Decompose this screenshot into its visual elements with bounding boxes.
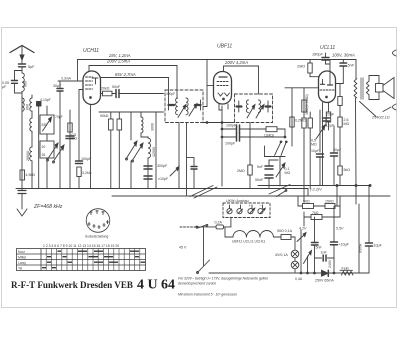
svg-text:R-F-T Funkwerk Dresden VEB: R-F-T Funkwerk Dresden VEB xyxy=(11,280,133,290)
svg-text:100pF: 100pF xyxy=(226,124,237,128)
svg-text:3,2kΩ: 3,2kΩ xyxy=(82,171,92,175)
svg-text:10μF: 10μF xyxy=(311,149,320,153)
svg-text:4,5kΩ: 4,5kΩ xyxy=(26,173,36,177)
svg-text:0,1μF: 0,1μF xyxy=(325,124,335,128)
svg-text:0,2A: 0,2A xyxy=(215,220,223,224)
svg-text:UBF11: UBF11 xyxy=(217,44,232,50)
svg-text:Sockelschaltung: Sockelschaltung xyxy=(85,235,108,239)
svg-text:5nF: 5nF xyxy=(257,165,264,169)
svg-text:UCH11: UCH11 xyxy=(83,48,99,54)
svg-text:5nF: 5nF xyxy=(316,246,323,250)
svg-text:50Ω 0,1A: 50Ω 0,1A xyxy=(277,229,293,233)
svg-text:MΩ: MΩ xyxy=(311,143,317,147)
svg-text:4 U 64: 4 U 64 xyxy=(137,278,175,293)
svg-text:4,2V: 4,2V xyxy=(299,227,307,231)
svg-text:300pF: 300pF xyxy=(166,92,175,96)
svg-text:3,3mA: 3,3mA xyxy=(61,77,72,81)
svg-text:5nF: 5nF xyxy=(348,64,355,68)
svg-text:45 V: 45 V xyxy=(179,246,187,250)
svg-text:2540/2,1Ω: 2540/2,1Ω xyxy=(371,116,390,120)
svg-text:5μF: 5μF xyxy=(28,65,35,69)
svg-text:200V 2,5mA: 200V 2,5mA xyxy=(106,59,130,64)
svg-text:1MΩ(1,1MΩ): 1MΩ(1,1MΩ) xyxy=(305,94,309,115)
svg-text:Für 320V~ beträgt U≈ 173V, daz: Für 320V~ beträgt U≈ 173V, dazugehörige … xyxy=(178,277,268,281)
svg-text:+10μF: +10μF xyxy=(339,243,350,247)
svg-text:7kΩ: 7kΩ xyxy=(312,211,319,215)
svg-text:dementsprechend zurück: dementsprechend zurück xyxy=(178,282,216,286)
svg-text:240V: 240V xyxy=(328,259,332,268)
svg-text:50nF: 50nF xyxy=(112,85,121,89)
svg-text:Feld: Feld xyxy=(342,266,349,270)
svg-text:20μF: 20μF xyxy=(333,148,342,152)
svg-text:30μF: 30μF xyxy=(53,84,62,88)
svg-text:20kΩ: 20kΩ xyxy=(101,87,110,91)
svg-text:4-13pF: 4-13pF xyxy=(40,98,51,102)
svg-text:4V/0,1A: 4V/0,1A xyxy=(275,253,288,257)
svg-text:85V 2,7mA: 85V 2,7mA xyxy=(115,72,136,77)
svg-text:MΩ: MΩ xyxy=(344,122,350,126)
svg-text:50Ω: 50Ω xyxy=(303,200,310,204)
svg-text:(-2,2)V: (-2,2)V xyxy=(310,188,322,192)
svg-text:ZF=468 kHz: ZF=468 kHz xyxy=(33,204,63,210)
svg-text:5kΩ: 5kΩ xyxy=(344,168,351,172)
svg-text:UKW=Ausbau: UKW=Ausbau xyxy=(226,199,249,203)
svg-text:1 2 3 4 5 6 7 8 9 10 11 12 13: 1 2 3 4 5 6 7 8 9 10 11 12 13 14 15 16 1… xyxy=(43,244,119,248)
svg-text:150Ω: 150Ω xyxy=(325,200,334,204)
svg-text:180pF: 180pF xyxy=(312,53,323,57)
svg-text:Kurz: Kurz xyxy=(18,250,25,254)
svg-text:65mA: 65mA xyxy=(359,243,363,253)
svg-text:0,4A: 0,4A xyxy=(295,277,303,281)
svg-text:70pF: 70pF xyxy=(55,115,63,119)
svg-text:5,5V: 5,5V xyxy=(336,227,344,231)
svg-text:Mittel: Mittel xyxy=(18,256,26,260)
svg-text:200V 4,2mA: 200V 4,2mA xyxy=(224,60,248,65)
svg-text:2MΩ: 2MΩ xyxy=(296,65,305,69)
svg-text:2MΩ: 2MΩ xyxy=(237,169,245,173)
svg-text:660: 660 xyxy=(26,104,30,110)
svg-text:0,2MΩ: 0,2MΩ xyxy=(295,119,306,123)
svg-text:250V 65mA: 250V 65mA xyxy=(315,279,334,283)
svg-text:300pF: 300pF xyxy=(157,164,168,168)
svg-text:100μF: 100μF xyxy=(81,157,92,161)
svg-text:UCL11: UCL11 xyxy=(320,45,335,51)
svg-text:50kΩ: 50kΩ xyxy=(100,114,109,118)
svg-text:MΩ: MΩ xyxy=(285,171,291,175)
svg-text:28V, 1,2mA: 28V, 1,2mA xyxy=(108,53,131,58)
svg-text:26600: 26600 xyxy=(26,151,30,161)
svg-text:660: 660 xyxy=(24,81,28,87)
svg-text:20: 20 xyxy=(42,145,46,149)
svg-text:50nF: 50nF xyxy=(255,178,264,182)
svg-text:100V, 36mA: 100V, 36mA xyxy=(332,53,355,58)
svg-text:(1MΩ): (1MΩ) xyxy=(264,134,274,138)
svg-text:3000: 3000 xyxy=(151,123,155,131)
svg-text:MΩ: MΩ xyxy=(72,137,78,141)
svg-text:530: 530 xyxy=(42,123,48,127)
svg-text:1nF: 1nF xyxy=(321,251,328,255)
svg-text:12000: 12000 xyxy=(152,147,156,157)
svg-text:25nF: 25nF xyxy=(326,113,335,117)
svg-text:Mit einem Instrument 5 · 10³ g: Mit einem Instrument 5 · 10³ gemessen xyxy=(178,293,237,297)
svg-text:100pF: 100pF xyxy=(225,142,236,146)
svg-text:Lang: Lang xyxy=(18,261,26,265)
svg-text:10μF: 10μF xyxy=(374,244,383,248)
svg-text:26: 26 xyxy=(42,153,46,157)
svg-text:UBF11 UCL11 UCH11: UBF11 UCL11 UCH11 xyxy=(232,240,265,244)
svg-text:±10pF: ±10pF xyxy=(158,177,169,181)
